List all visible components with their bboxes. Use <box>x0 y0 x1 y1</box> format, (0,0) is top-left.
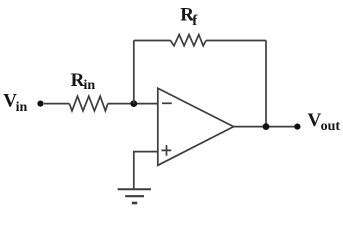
op-amp U1 triangle <box>158 88 234 165</box>
label Vout <box>308 110 341 134</box>
svg-text:out: out <box>321 119 341 134</box>
svg-text:in: in <box>16 100 28 115</box>
svg-text:R: R <box>71 70 85 91</box>
wire non-inverting input to ground drop <box>134 152 158 190</box>
label Vin <box>3 90 27 114</box>
node junction at output <box>263 123 270 130</box>
wire Vin to Rin <box>44 103 69 105</box>
label Rf <box>180 4 198 29</box>
ground <box>118 189 151 203</box>
resistor Rin <box>69 96 107 111</box>
svg-text:V: V <box>308 110 322 131</box>
terminal dot Vin <box>37 101 43 107</box>
label Rin <box>71 70 96 93</box>
wire output <box>233 126 297 128</box>
wire feedback right vertical <box>265 41 267 127</box>
svg-text:in: in <box>84 78 96 93</box>
node junction at inverting input <box>130 100 137 107</box>
wire feedback top left <box>134 40 171 42</box>
resistor Rf <box>171 35 207 46</box>
wire feedback top right <box>206 40 266 42</box>
plus sign non-inverting input <box>162 145 172 156</box>
wire feedback left vertical <box>133 41 135 104</box>
terminal dot Vout <box>294 124 300 130</box>
wire Rin to inverting input <box>108 103 158 105</box>
minus sign inverting input <box>162 102 172 104</box>
